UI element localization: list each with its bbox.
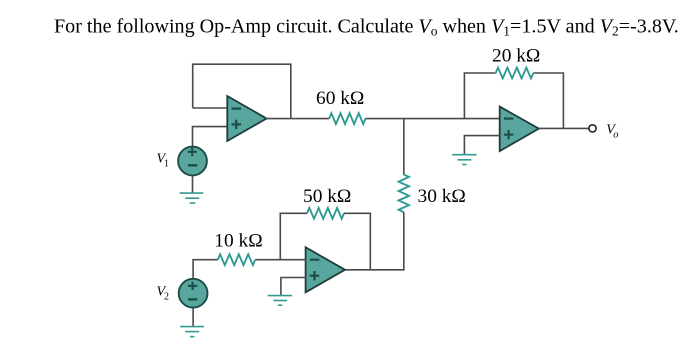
svg-text:20 kΩ: 20 kΩ: [492, 46, 540, 67]
wire op3 output: [539, 127, 589, 129]
wire op2 output to 30k bottom: [345, 269, 405, 271]
wire op3 feedback loop left: [464, 73, 495, 119]
source V1: [178, 147, 207, 176]
wire op3 feedback loop right: [533, 73, 563, 128]
source V2: [179, 279, 208, 308]
svg-text:1: 1: [164, 159, 169, 170]
op-amp U1: [227, 96, 266, 141]
svg-text:10 kΩ: 10 kΩ: [214, 231, 262, 252]
terminal Vo: [589, 125, 596, 132]
ground op3: [452, 155, 476, 165]
resistor 20k: [492, 46, 540, 79]
wire op1 inverting input: [193, 107, 228, 109]
wire 10k to op2 inverting input: [255, 259, 305, 261]
wire op3 non-inverting input: [464, 136, 499, 155]
svg-text:50 kΩ: 50 kΩ: [303, 186, 351, 207]
ground V2: [180, 327, 204, 337]
op-amp U3: [500, 107, 539, 152]
svg-text:60 kΩ: 60 kΩ: [316, 88, 364, 109]
wire V1 to ground: [192, 176, 194, 193]
wire 50k loop left: [280, 213, 307, 259]
resistor 10k: [214, 231, 262, 266]
svg-text:2: 2: [164, 292, 169, 303]
wire op1 feedback loop: [193, 64, 291, 118]
wire 50k loop right: [344, 213, 370, 269]
wire op1 non-inverting input from V1: [193, 127, 228, 147]
svg-text:o: o: [613, 129, 618, 140]
svg-text:For the following Op-Amp circu: For the following Op-Amp circuit. Calcul…: [54, 15, 679, 38]
wire op1 output: [267, 118, 330, 120]
wire V2 to ground: [192, 308, 194, 326]
wire op2 non-inverting input: [281, 278, 306, 296]
wire 60k to op3 inverting input: [366, 118, 500, 120]
ground op2: [268, 296, 292, 306]
resistor 60k: [316, 88, 366, 124]
svg-text:30 kΩ: 30 kΩ: [418, 186, 466, 207]
op-amp U2: [306, 247, 345, 292]
resistor 30k: [399, 119, 466, 270]
ground V1: [180, 193, 204, 203]
wire V2 to 10k: [193, 260, 218, 279]
resistor 50k: [303, 186, 351, 219]
